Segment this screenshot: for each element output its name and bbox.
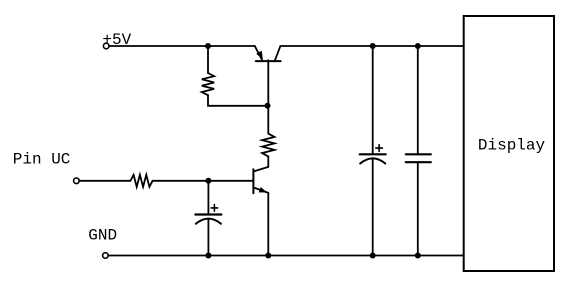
resistor R1 <box>202 73 214 95</box>
node base junction <box>265 103 271 109</box>
node top rail C3 branch <box>415 43 421 49</box>
terminal +5V <box>103 43 109 49</box>
resistor R3 <box>130 175 152 187</box>
terminal Pin UC <box>74 178 80 184</box>
node C3 bottom <box>415 253 421 259</box>
display box U1 <box>464 16 554 271</box>
transistor Q2 (NPN) <box>253 167 268 256</box>
node top rail C2 branch <box>370 43 376 49</box>
node Pin UC junction <box>205 178 211 184</box>
wire R1 top lead <box>207 46 209 73</box>
wire R3 to Q2 base <box>153 180 253 182</box>
node C2 bottom <box>370 253 376 259</box>
svg-text:Pin UC: Pin UC <box>13 151 71 169</box>
wire Pin UC to R3 <box>79 180 130 182</box>
node Q2 emitter bottom <box>265 253 271 259</box>
wire top rail right <box>280 45 464 47</box>
transistor Q1 (PNP) <box>255 46 281 106</box>
capacitor C2 (polarized) <box>360 46 386 256</box>
svg-text:Display: Display <box>478 137 546 155</box>
capacitor C3 <box>406 46 431 256</box>
wire top rail left <box>109 45 255 47</box>
capacitor C1 (polarized) <box>195 181 221 256</box>
wire R2 top lead <box>267 106 269 134</box>
wire R2 bottom lead <box>267 156 269 167</box>
wire R1 bottom lead <box>208 95 268 106</box>
svg-text:GND: GND <box>88 227 117 245</box>
node top rail R1 branch <box>205 43 211 49</box>
terminal GND <box>103 253 109 259</box>
wire bottom rail <box>108 255 464 257</box>
resistor R2 <box>262 134 274 157</box>
node C1 bottom <box>205 253 211 259</box>
